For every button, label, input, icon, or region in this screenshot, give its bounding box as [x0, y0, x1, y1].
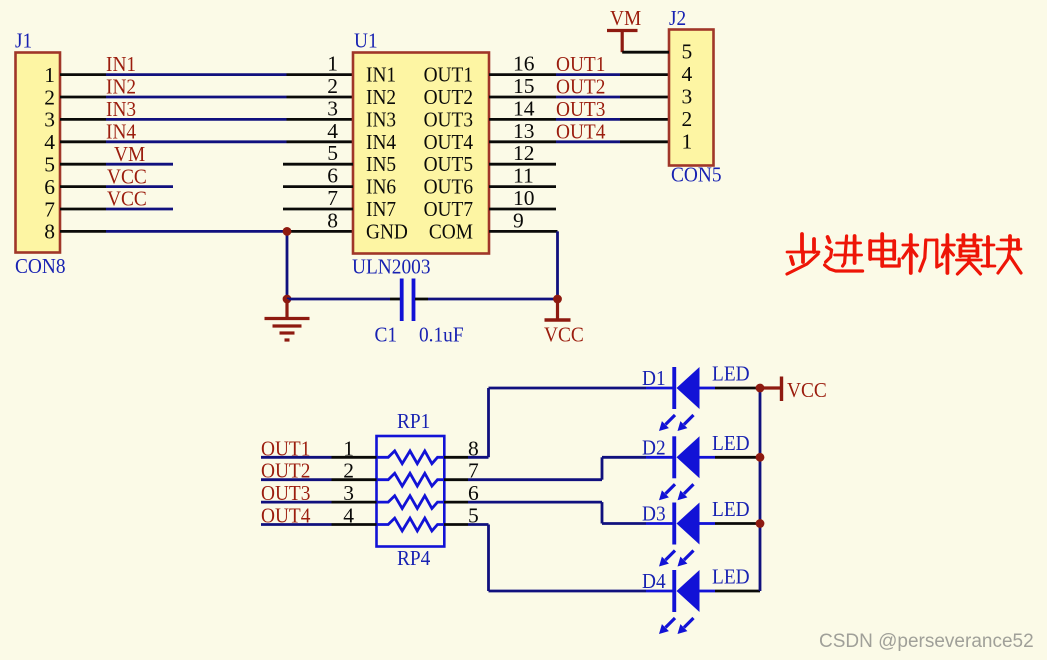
svg-text:GND: GND: [366, 219, 408, 243]
svg-text:RP1: RP1: [397, 409, 430, 433]
svg-text:5: 5: [44, 153, 55, 177]
svg-text:D4: D4: [642, 569, 666, 593]
svg-text:U1: U1: [354, 29, 378, 53]
svg-text:3: 3: [343, 481, 354, 505]
svg-text:VCC: VCC: [544, 323, 584, 347]
svg-text:OUT4: OUT4: [556, 119, 606, 143]
svg-text:3: 3: [44, 108, 55, 132]
svg-text:OUT6: OUT6: [424, 175, 474, 199]
svg-text:0.1uF: 0.1uF: [419, 323, 464, 347]
svg-text:IN6: IN6: [366, 175, 396, 199]
svg-text:IN4: IN4: [366, 130, 396, 154]
svg-text:1: 1: [44, 63, 55, 87]
svg-text:VCC: VCC: [107, 187, 147, 211]
svg-text:7: 7: [44, 197, 55, 221]
svg-text:IN2: IN2: [106, 75, 136, 99]
svg-text:OUT4: OUT4: [261, 504, 311, 528]
svg-text:J2: J2: [669, 6, 686, 30]
svg-text:1: 1: [343, 436, 354, 460]
svg-text:OUT3: OUT3: [424, 107, 473, 131]
svg-text:RP4: RP4: [397, 546, 431, 570]
svg-text:IN1: IN1: [106, 52, 136, 76]
svg-text:OUT1: OUT1: [261, 436, 310, 460]
svg-text:IN5: IN5: [366, 152, 396, 176]
svg-text:D1: D1: [642, 366, 666, 390]
svg-text:COM: COM: [429, 219, 473, 243]
svg-text:9: 9: [513, 208, 524, 232]
svg-text:2: 2: [682, 107, 693, 131]
svg-text:IN1: IN1: [366, 63, 396, 87]
svg-text:OUT2: OUT2: [261, 459, 310, 483]
svg-text:IN4: IN4: [106, 119, 136, 143]
svg-text:C1: C1: [375, 323, 398, 347]
svg-text:OUT2: OUT2: [556, 75, 605, 99]
svg-text:J1: J1: [15, 29, 32, 53]
svg-text:14: 14: [513, 96, 535, 120]
svg-text:13: 13: [513, 119, 535, 143]
svg-text:7: 7: [327, 186, 338, 210]
svg-text:2: 2: [44, 85, 55, 109]
svg-text:15: 15: [513, 74, 535, 98]
svg-text:1: 1: [682, 129, 693, 153]
svg-text:12: 12: [513, 141, 535, 165]
svg-text:3: 3: [682, 85, 693, 109]
svg-text:OUT3: OUT3: [556, 97, 605, 121]
svg-text:OUT3: OUT3: [261, 481, 310, 505]
svg-text:2: 2: [343, 459, 354, 483]
svg-text:2: 2: [327, 74, 338, 98]
svg-text:4: 4: [44, 130, 55, 154]
svg-text:6: 6: [327, 164, 338, 188]
svg-text:IN2: IN2: [366, 85, 396, 109]
svg-text:IN7: IN7: [366, 197, 396, 221]
svg-text:LED: LED: [712, 362, 750, 386]
svg-text:IN3: IN3: [106, 97, 136, 121]
svg-text:LED: LED: [712, 497, 750, 521]
svg-text:D3: D3: [642, 502, 666, 526]
svg-text:10: 10: [513, 186, 535, 210]
svg-text:OUT1: OUT1: [556, 52, 605, 76]
svg-text:8: 8: [44, 220, 55, 244]
svg-text:1: 1: [327, 52, 338, 76]
svg-text:11: 11: [513, 164, 534, 188]
svg-text:CSDN @perseverance52: CSDN @perseverance52: [819, 631, 1034, 652]
svg-text:8: 8: [327, 208, 338, 232]
svg-text:OUT5: OUT5: [424, 152, 473, 176]
svg-text:16: 16: [513, 52, 535, 76]
svg-text:CON5: CON5: [671, 163, 722, 187]
svg-text:6: 6: [44, 175, 55, 199]
svg-text:4: 4: [682, 62, 693, 86]
svg-text:OUT7: OUT7: [424, 197, 474, 221]
svg-text:3: 3: [327, 96, 338, 120]
svg-text:VCC: VCC: [107, 164, 147, 188]
svg-text:OUT1: OUT1: [424, 63, 473, 87]
svg-text:OUT4: OUT4: [424, 130, 474, 154]
svg-text:VCC: VCC: [787, 378, 827, 402]
svg-text:LED: LED: [712, 565, 750, 589]
svg-text:VM: VM: [610, 6, 641, 30]
svg-text:5: 5: [327, 141, 338, 165]
svg-text:4: 4: [327, 119, 338, 143]
svg-text:LED: LED: [712, 431, 750, 455]
svg-text:CON8: CON8: [15, 254, 66, 278]
svg-text:OUT2: OUT2: [424, 85, 473, 109]
svg-text:D2: D2: [642, 435, 666, 459]
svg-text:IN3: IN3: [366, 107, 396, 131]
svg-text:4: 4: [343, 504, 354, 528]
svg-text:ULN2003: ULN2003: [352, 255, 431, 279]
svg-text:5: 5: [682, 40, 693, 64]
svg-text:VM: VM: [114, 142, 145, 166]
